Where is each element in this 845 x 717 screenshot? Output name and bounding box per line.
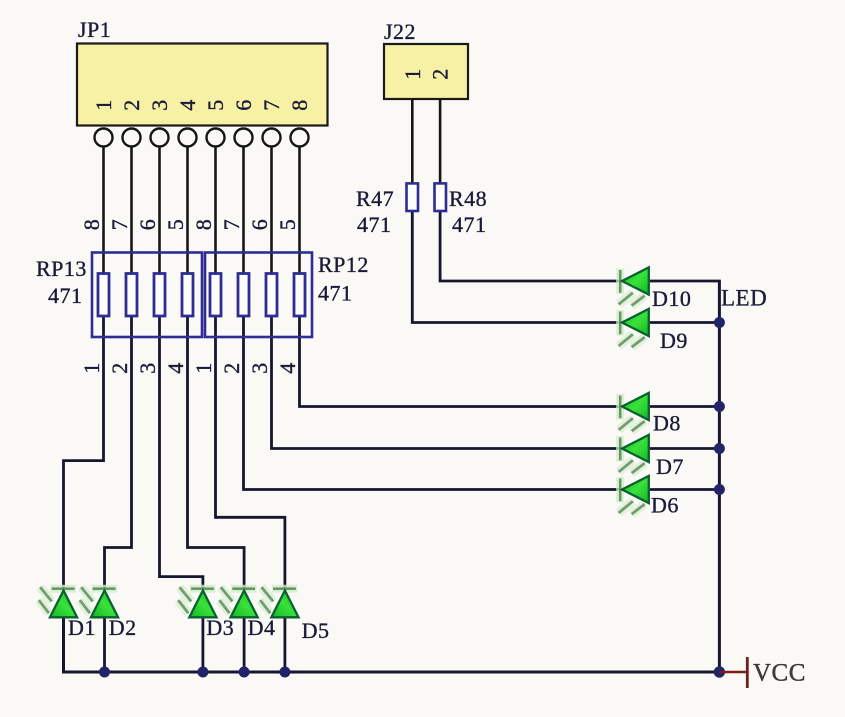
wire RP13 pin1 down: [102, 316, 105, 462]
LED D4: [219, 587, 257, 617]
svg-text:2: 2: [119, 99, 144, 111]
svg-text:R48: R48: [449, 186, 487, 211]
resistor RP13-a: [98, 274, 109, 317]
wire RP13 pin4 down: [186, 316, 189, 549]
LED D10: [619, 267, 649, 305]
svg-text:4: 4: [275, 362, 300, 374]
svg-text:VCC: VCC: [753, 660, 806, 687]
svg-text:6: 6: [135, 219, 160, 231]
svg-text:5: 5: [203, 99, 228, 111]
svg-text:JP1: JP1: [78, 17, 111, 42]
LED D9: [619, 309, 649, 347]
resistor network RP13 box: [36, 253, 202, 338]
svg-text:5: 5: [275, 219, 300, 231]
wire JP1 pin6 to RP12: [242, 146, 245, 274]
svg-text:4: 4: [175, 99, 200, 111]
svg-text:7: 7: [259, 99, 284, 111]
svg-text:3: 3: [147, 99, 172, 111]
JP1 pin circle 6: [235, 129, 253, 147]
resistor RP13-d: [182, 274, 193, 317]
resistor R47: [356, 183, 418, 237]
wire D8 to right bus: [650, 405, 719, 408]
junction dot D4 bus: [239, 667, 250, 678]
svg-text:D3: D3: [206, 615, 234, 640]
wire w4 step to D4: [188, 548, 245, 590]
power symbol VCC: [719, 657, 806, 688]
resistor RP12-b: [238, 274, 249, 317]
wire D10 to right bus: [650, 280, 721, 283]
wire D4 anode down: [243, 615, 246, 672]
LED D3: [178, 587, 216, 617]
wire right bus vertical: [718, 281, 721, 672]
svg-text:1: 1: [191, 362, 216, 374]
svg-text:1: 1: [91, 99, 116, 111]
connector J22: [384, 19, 468, 99]
svg-text:RP13: RP13: [36, 256, 87, 281]
svg-text:2: 2: [428, 68, 453, 80]
svg-text:471: 471: [452, 212, 487, 237]
wire RP12 pin1 down: [214, 316, 217, 519]
LED D5: [260, 587, 298, 617]
svg-text:3: 3: [135, 362, 160, 374]
wire JP1 pin8 to RP12: [298, 146, 301, 274]
svg-text:D8: D8: [653, 411, 681, 436]
JP1 pin circle 7: [263, 129, 281, 147]
svg-text:8: 8: [191, 219, 216, 231]
wire D2 anode down: [103, 615, 106, 672]
svg-text:2: 2: [107, 362, 132, 374]
JP1 pin circle 8: [291, 129, 309, 147]
wire D9 to right bus: [650, 321, 719, 324]
svg-text:R47: R47: [356, 186, 394, 211]
svg-text:D2: D2: [109, 615, 137, 640]
svg-text:3: 3: [247, 362, 272, 374]
junction dot D8 bus: [714, 401, 725, 412]
wire R47 to D9: [412, 210, 622, 323]
svg-text:8: 8: [287, 99, 312, 111]
resistor RP12-a: [210, 274, 221, 317]
svg-text:LED: LED: [721, 286, 767, 311]
junction dot D3 bus: [197, 667, 208, 678]
JP1 pin circle 4: [179, 129, 197, 147]
svg-text:D5: D5: [302, 618, 330, 643]
junction dot D5 bus: [279, 667, 290, 678]
wire w5 step to D5: [216, 517, 285, 589]
wire RP12 pin4 down to D8: [300, 316, 623, 407]
wire bottom bus: [64, 587, 720, 672]
wire R48 to D10: [440, 210, 622, 281]
junction dot D2 bus: [99, 667, 110, 678]
svg-text:7: 7: [107, 219, 132, 231]
wire JP1 pin3 to RP13: [158, 146, 161, 274]
junction dot D9 bus: [714, 317, 725, 328]
JP1 pin circle 1: [95, 129, 113, 147]
junction dot D6 bus: [714, 484, 725, 495]
wire D3 anode down: [201, 615, 204, 672]
svg-text:6: 6: [231, 99, 256, 111]
wire D5 anode down: [283, 615, 286, 672]
svg-text:D7: D7: [656, 454, 684, 479]
svg-text:471: 471: [318, 281, 353, 306]
JP1 pin circle 2: [123, 129, 141, 147]
svg-text:D10: D10: [652, 286, 691, 311]
wire w3 step to D3: [160, 577, 203, 589]
wire JP1 pin4 to RP13: [186, 146, 189, 274]
junction dot D7 bus: [714, 443, 725, 454]
JP1 pin circle 5: [207, 129, 225, 147]
LED D7: [619, 435, 649, 473]
svg-text:5: 5: [163, 219, 188, 231]
svg-text:471: 471: [357, 212, 392, 237]
wire JP1 pin1 to RP13: [102, 146, 105, 274]
wire J22 pin1 down: [411, 99, 414, 184]
wire RP12 pin3 down to D7: [272, 316, 623, 449]
JP1 pin circle 3: [151, 129, 169, 147]
svg-text:D4: D4: [248, 615, 276, 640]
svg-text:1: 1: [79, 362, 104, 374]
wire w1 step to D1: [64, 461, 104, 589]
resistor network RP12 box: [205, 252, 369, 337]
connector JP1: [77, 17, 328, 126]
svg-text:6: 6: [247, 219, 272, 231]
wire JP1 pin7 to RP12: [270, 146, 273, 274]
wire D7 to right bus: [650, 447, 719, 450]
wire J22 pin2 down: [439, 99, 442, 184]
svg-text:7: 7: [219, 219, 244, 231]
LED D6: [619, 476, 649, 514]
wire JP1 pin5 to RP12: [214, 146, 217, 274]
svg-text:D9: D9: [660, 328, 688, 353]
LED D1: [39, 587, 77, 617]
svg-text:J22: J22: [384, 19, 416, 44]
wire w2 step to D2: [105, 548, 132, 590]
resistor RP13-b: [126, 274, 137, 317]
resistor RP13-c: [154, 274, 165, 317]
svg-text:2: 2: [219, 362, 244, 374]
wire D6 to right bus: [650, 488, 719, 491]
wire JP1 pin2 to RP13: [130, 146, 133, 274]
svg-text:8: 8: [79, 219, 104, 231]
wire RP13 pin2 down: [130, 316, 133, 549]
resistor RP12-d: [294, 274, 305, 317]
LED D2: [80, 587, 118, 617]
svg-text:D1: D1: [68, 615, 96, 640]
svg-text:471: 471: [48, 283, 83, 308]
svg-text:1: 1: [400, 68, 425, 80]
resistor RP12-c: [266, 274, 277, 317]
svg-text:RP12: RP12: [318, 252, 369, 277]
junction dot VCC bus: [714, 666, 725, 677]
svg-text:4: 4: [163, 362, 188, 374]
wire RP12 pin2 down to D6: [244, 316, 623, 490]
wire RP13 pin3 down: [158, 316, 161, 578]
svg-text:D6: D6: [651, 493, 679, 518]
wire D1 anode down: [62, 615, 65, 672]
LED D8: [619, 393, 649, 431]
resistor R48: [435, 183, 488, 237]
